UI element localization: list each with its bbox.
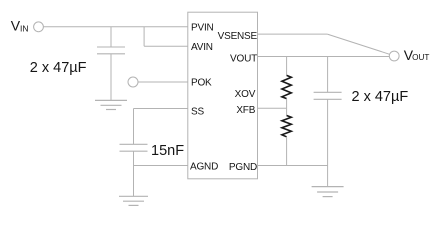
wire VSENSE diagonal <box>327 34 389 54</box>
wire input cap top lead <box>110 27 112 47</box>
svg-text:15nF: 15nF <box>151 143 184 159</box>
wire R1 bottom lead <box>286 99 288 109</box>
node VOUT terminal circle <box>389 51 399 61</box>
wire POK <box>138 81 188 83</box>
wire output cap top lead <box>327 57 329 93</box>
wire R2 top lead <box>286 108 288 115</box>
svg-text:VSENSE: VSENSE <box>218 31 258 42</box>
wire XFB horizontal <box>258 107 287 109</box>
svg-text:PGND: PGND <box>229 162 257 173</box>
wire VSENSE horizontal <box>258 33 328 35</box>
wire R2 bottom lead <box>286 137 288 166</box>
svg-text:XFB: XFB <box>236 105 255 116</box>
svg-text:AVIN: AVIN <box>191 42 213 53</box>
svg-text:SS: SS <box>191 106 204 117</box>
wire SS horizontal <box>134 108 188 110</box>
capacitor C1 2 x 47uF (input) <box>97 47 125 54</box>
wire AVIN branch horizontal <box>144 45 188 47</box>
svg-text:2 x 47µF: 2 x 47µF <box>30 60 87 76</box>
svg-text:AGND: AGND <box>190 162 218 173</box>
wire AGND horizontal <box>134 165 188 167</box>
wire input cap bottom lead <box>110 54 112 101</box>
svg-text:VOUT: VOUT <box>404 47 430 63</box>
node POK terminal circle <box>128 77 138 87</box>
wire output cap bottom lead <box>327 99 329 186</box>
resistor R2 <box>282 116 291 137</box>
wire VOUT rail <box>258 56 390 58</box>
resistor R1 <box>282 75 291 98</box>
wire SS cap top lead <box>133 109 135 145</box>
capacitor C3 2 x 47uF (output) <box>314 92 342 99</box>
wire PGND horizontal <box>258 165 328 167</box>
svg-text:VOUT: VOUT <box>230 53 257 64</box>
svg-text:POK: POK <box>191 78 212 89</box>
svg-text:PVIN: PVIN <box>191 23 214 34</box>
node VIN terminal circle <box>34 22 44 32</box>
ground G1 (input) <box>95 100 127 109</box>
svg-text:VIN: VIN <box>11 17 29 33</box>
op-amp U1 (regulator IC body) <box>188 12 258 179</box>
ground G2 (output) <box>312 187 344 197</box>
ground G3 (15nF) <box>119 196 148 205</box>
wire R1 top lead <box>286 57 288 76</box>
wire AVIN branch vertical <box>143 27 145 46</box>
wire SS cap bottom lead <box>133 151 135 196</box>
svg-text:2 x 47µF: 2 x 47µF <box>352 89 409 105</box>
svg-text:XOV: XOV <box>235 89 256 100</box>
wire VIN rail to PVIN <box>43 26 187 28</box>
capacitor C2 15nF <box>120 144 148 151</box>
